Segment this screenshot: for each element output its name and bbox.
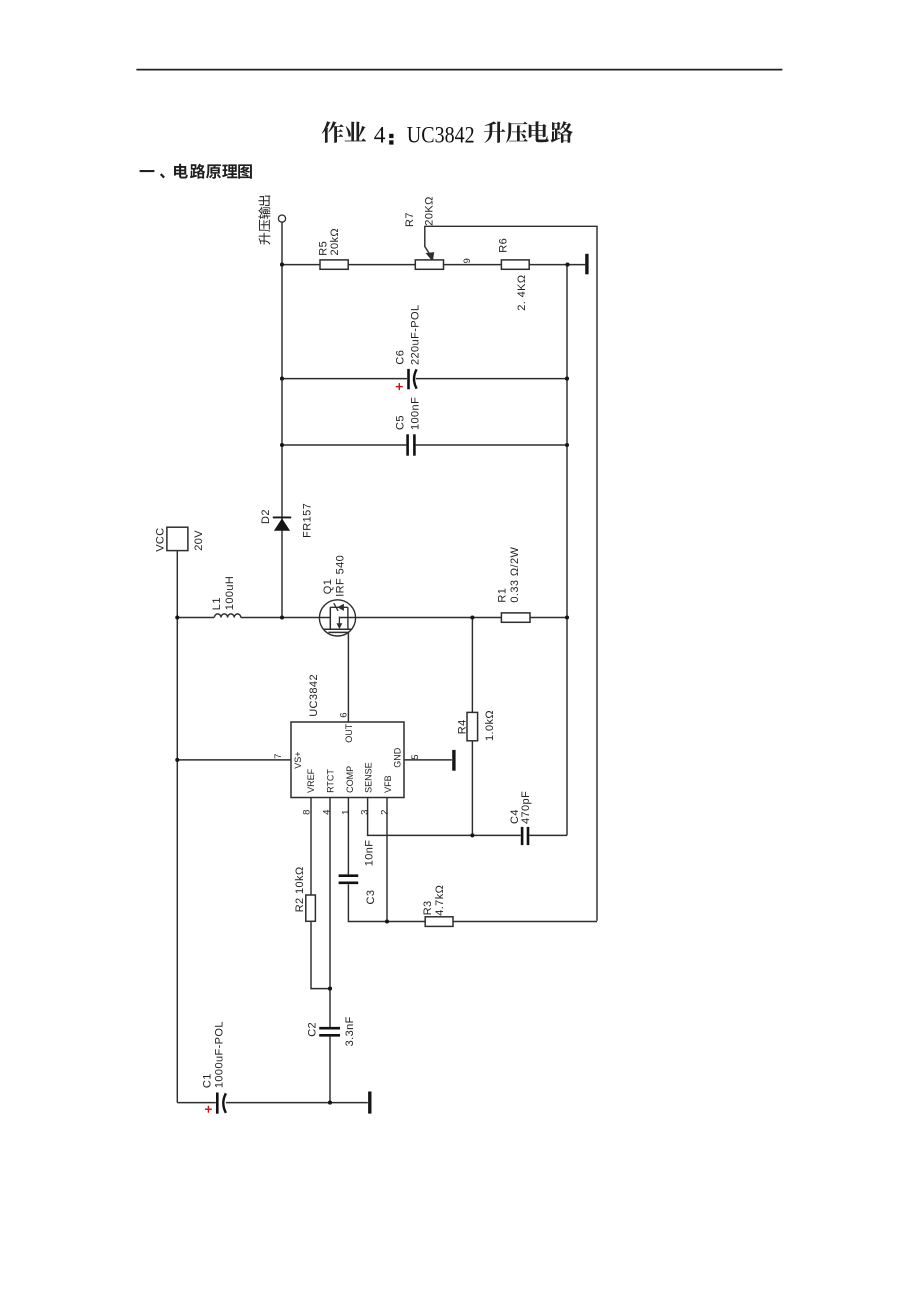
plus mark of C6 xyxy=(396,383,403,390)
svg-text:0.33 Ω/2W: 0.33 Ω/2W xyxy=(509,547,521,603)
label C3 10nF xyxy=(364,840,377,905)
capacitor C6 (polarized) xyxy=(409,369,417,389)
wire: output vertical line (terminal to rail through D2) xyxy=(281,222,283,617)
svg-text:R4: R4 xyxy=(456,719,468,734)
svg-text:FR157: FR157 xyxy=(301,503,313,538)
capacitor C1 (polarized) xyxy=(217,1093,226,1114)
ground symbol at pin5 xyxy=(452,750,455,771)
svg-text:UC3842: UC3842 xyxy=(407,123,475,149)
svg-text:C1: C1 xyxy=(202,1073,214,1088)
svg-text:C6: C6 xyxy=(394,350,406,365)
label Q1 IRF 540 xyxy=(322,555,347,597)
svg-text:1: 1 xyxy=(341,810,352,815)
wire: pin4 down through C2 to bottom rail xyxy=(329,798,331,1103)
svg-text:RTCT: RTCT xyxy=(325,769,335,793)
svg-text:6: 6 xyxy=(338,713,349,718)
ground symbol bottom xyxy=(368,1092,371,1114)
capacitor C2 xyxy=(319,1028,340,1035)
resistor R4 xyxy=(467,712,478,740)
svg-text:GND: GND xyxy=(393,747,403,768)
header rule xyxy=(136,69,782,71)
wire: pin1 through C3 to R3 row xyxy=(348,798,597,922)
section heading 一、电路原理图 xyxy=(140,164,252,179)
wire: C6 row xyxy=(282,378,567,380)
inductor L1 xyxy=(214,614,240,618)
IC U1 UC3842 xyxy=(291,722,404,798)
svg-text:20KΩ: 20KΩ xyxy=(424,196,436,225)
label C2 3.3nF xyxy=(307,1016,356,1046)
svg-text:20V: 20V xyxy=(193,530,205,551)
resistor R3 xyxy=(425,917,453,927)
svg-text:4.7kΩ: 4.7kΩ xyxy=(434,885,446,916)
svg-text:R6: R6 xyxy=(498,238,510,253)
resistor R6 xyxy=(501,260,529,269)
label R3 4.7kΩ xyxy=(422,885,446,916)
svg-text:100nF: 100nF xyxy=(410,397,422,430)
label C6 220uF-POL xyxy=(394,305,421,365)
svg-text:2: 2 xyxy=(380,810,391,815)
wire: pin8 to R2 and jog xyxy=(311,798,330,989)
svg-text:4: 4 xyxy=(322,810,333,815)
wire: pin7 VS+ to VCC line xyxy=(177,759,291,761)
wire: main rail xyxy=(177,617,567,619)
svg-text:C5: C5 xyxy=(394,415,406,430)
svg-text:100uH: 100uH xyxy=(224,576,236,610)
svg-text:VS+: VS+ xyxy=(293,751,303,768)
diode D2 FR157 xyxy=(273,517,291,530)
wire: pin5 GND stub xyxy=(404,759,452,761)
wiper arrowhead of R7 xyxy=(427,253,434,261)
plus mark of C1 xyxy=(205,1106,212,1113)
svg-text:VFB: VFB xyxy=(383,775,393,793)
wire: sense node through R4 xyxy=(471,618,473,836)
resistor R5 xyxy=(320,260,348,269)
title 作业4：UC3842升压电路 xyxy=(322,121,573,148)
svg-text:VREF: VREF xyxy=(306,768,316,793)
wire: R7 wiper to right bus xyxy=(425,226,597,921)
wire: ground bus vertical xyxy=(566,265,568,836)
svg-text:R2 10kΩ: R2 10kΩ xyxy=(294,866,306,912)
svg-text:9: 9 xyxy=(462,258,473,263)
svg-text:470pF: 470pF xyxy=(520,791,532,824)
svg-text:3: 3 xyxy=(360,810,371,815)
svg-text:Q1: Q1 xyxy=(322,579,334,594)
resistor R1 xyxy=(501,613,530,622)
svg-text:220uF-POL: 220uF-POL xyxy=(410,305,422,365)
svg-text:OUT: OUT xyxy=(344,723,354,743)
wire: C5 row xyxy=(282,444,567,446)
potentiometer R7 xyxy=(415,260,443,269)
label R4 1.0kΩ xyxy=(456,710,496,741)
svg-text:IRF 540: IRF 540 xyxy=(335,555,347,597)
label L1 100uH xyxy=(211,576,236,610)
label C5 100nF xyxy=(394,397,421,430)
svg-text:7: 7 xyxy=(273,754,284,759)
svg-text:R5: R5 xyxy=(317,241,329,256)
svg-text:R7: R7 xyxy=(404,212,416,227)
svg-text:VCC: VCC xyxy=(155,527,167,551)
svg-text:L1: L1 xyxy=(211,597,223,610)
svg-text:C2: C2 xyxy=(307,1022,319,1037)
label R7 20KΩ xyxy=(404,196,436,227)
svg-text:C3: C3 xyxy=(365,890,377,905)
svg-text:2. 4KΩ: 2. 4KΩ xyxy=(516,274,528,310)
svg-text:4: 4 xyxy=(374,123,386,149)
wire: pin3 SENSE row xyxy=(368,798,567,836)
ground symbol top right xyxy=(585,254,588,274)
svg-text:D2: D2 xyxy=(260,509,272,524)
svg-text:10nF: 10nF xyxy=(364,840,376,867)
wire: Q1 gate to pin6 xyxy=(347,632,349,722)
wire: VCC vertical line xyxy=(176,551,178,1103)
wire: bottom rail xyxy=(177,1102,367,1104)
VCC power port xyxy=(167,527,188,550)
resistor R2 xyxy=(306,895,316,921)
svg-text:3.3nF: 3.3nF xyxy=(344,1016,356,1046)
svg-text:COMP: COMP xyxy=(345,766,355,793)
wire: divider row segments xyxy=(282,264,585,266)
svg-text:1000uF-POL: 1000uF-POL xyxy=(214,1021,226,1088)
capacitor C4 xyxy=(522,827,528,845)
label R5 20kΩ xyxy=(317,228,341,256)
capacitor C3 xyxy=(339,876,359,883)
node 升压输出 (boost output) label xyxy=(258,196,270,245)
label R6 2.4KΩ xyxy=(498,238,528,311)
svg-text:R1: R1 xyxy=(497,588,509,603)
capacitor C5 xyxy=(408,434,415,455)
svg-text:UC3842: UC3842 xyxy=(308,674,320,717)
svg-text:SENSE: SENSE xyxy=(363,762,373,793)
label C1 1000uF-POL xyxy=(202,1021,226,1088)
svg-text:1.0kΩ: 1.0kΩ xyxy=(484,710,496,741)
output terminal circle xyxy=(278,215,285,222)
wire: pin2 VFB down xyxy=(386,798,388,922)
transistor Q1 IRF540 MOSFET xyxy=(319,600,355,636)
label R1 0.33Ω/2W xyxy=(497,547,522,603)
svg-text:8: 8 xyxy=(301,810,312,815)
svg-text:R3: R3 xyxy=(422,900,434,915)
label C4 470pF xyxy=(509,791,532,824)
svg-text:5: 5 xyxy=(410,755,421,760)
svg-text:20kΩ: 20kΩ xyxy=(329,228,341,256)
